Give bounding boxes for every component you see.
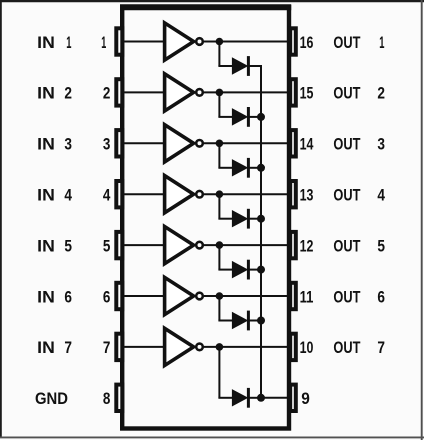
wire diode D5 anode (218, 269, 233, 271)
svg-text:IN: IN (37, 187, 55, 205)
svg-text:IN: IN (37, 237, 55, 255)
wire input pin 7 to inverter 7 (124, 346, 166, 348)
svg-text:12: 12 (300, 237, 314, 255)
svg-text:15: 15 (300, 85, 314, 103)
diode D1 (232, 58, 247, 74)
inverter U4 output bubble (196, 191, 203, 198)
wire input pin 1 to inverter 1 (124, 41, 166, 43)
pin 2 tab (116, 79, 122, 105)
junction node diode D2 on rail (257, 113, 265, 121)
svg-text:OUT: OUT (333, 85, 360, 103)
inverter U2 output bubble (196, 89, 203, 96)
svg-text:5: 5 (64, 237, 72, 255)
wire input pin 5 to inverter 5 (124, 244, 166, 246)
svg-text:8: 8 (103, 390, 111, 408)
diode D5 (232, 262, 247, 278)
junction node diode D5 on rail (257, 266, 265, 274)
svg-text:OUT: OUT (333, 136, 360, 154)
diode D4 (232, 211, 247, 227)
diode D7 cathode bar (247, 388, 250, 408)
svg-text:IN: IN (37, 136, 55, 154)
junction node diode D7 on rail (257, 394, 265, 402)
wire diode D3 cathode to common rail (248, 167, 262, 169)
inverter U1 (165, 23, 194, 60)
wire input pin 2 to inverter 2 (124, 91, 166, 93)
border frame left (0, 0, 2, 438)
wire diode D4 anode (218, 218, 233, 220)
svg-text:OUT: OUT (333, 187, 360, 205)
junction node row 5 (216, 241, 224, 249)
pin 12 tab (290, 232, 296, 258)
junction node diode D4 on rail (257, 215, 265, 223)
inverter U5 (165, 227, 194, 264)
pin 4 tab (116, 181, 122, 207)
wire diode D6 anode (218, 320, 233, 322)
pin 10 tab (290, 334, 296, 360)
diode D6 (232, 313, 247, 329)
wire inverter 6 output to pin 11 (204, 295, 288, 297)
pin 13 tab (290, 181, 296, 207)
wire input pin 6 to inverter 6 (124, 295, 166, 297)
junction node diode D6 on rail (257, 317, 265, 325)
IC body outline (16-pin DIP) (122, 7, 289, 429)
junction node row 7 (216, 343, 224, 351)
wire diode D2 anode (218, 116, 233, 118)
wire inverter 2 output to pin 15 (204, 91, 288, 93)
junction node row 4 (216, 190, 224, 198)
inverter U1 output bubble (196, 38, 203, 45)
diode D6 cathode bar (247, 311, 250, 331)
inverter U2 (165, 74, 194, 111)
diode D7 (232, 390, 247, 406)
svg-text:4: 4 (377, 187, 385, 205)
svg-text:2: 2 (377, 85, 385, 103)
svg-text:OUT: OUT (333, 288, 360, 306)
diode D4 cathode bar (247, 209, 250, 229)
pin 16 tab (290, 28, 296, 54)
svg-text:11: 11 (300, 288, 314, 306)
svg-text:OUT: OUT (333, 339, 360, 357)
svg-text:2: 2 (103, 85, 111, 103)
wire diode D7 cathode to common rail (248, 397, 262, 399)
inverter U3 output bubble (196, 140, 203, 147)
inverter U7 (165, 328, 194, 365)
svg-text:6: 6 (103, 288, 111, 306)
wire diode D4 cathode to common rail (248, 218, 262, 220)
diode D1 cathode bar (247, 56, 250, 76)
svg-text:6: 6 (64, 288, 72, 306)
inverter U7 output bubble (196, 344, 203, 351)
diode D2 cathode bar (247, 107, 250, 127)
pin 5 tab (116, 232, 122, 258)
svg-text:16: 16 (300, 34, 314, 52)
svg-text:IN: IN (37, 288, 55, 306)
wire junction 2 down to diode D2 (218, 92, 220, 117)
wire diode D5 cathode to common rail (248, 269, 262, 271)
inverter U4 (165, 176, 194, 213)
svg-text:2: 2 (64, 85, 72, 103)
pin 11 tab (290, 283, 296, 309)
svg-text:3: 3 (103, 136, 111, 154)
pin 1 tab (116, 28, 122, 54)
wire inverter 5 output to pin 12 (204, 244, 288, 246)
pin 15 tab (290, 79, 296, 105)
svg-text:5: 5 (377, 237, 385, 255)
pin 9 tab (290, 385, 296, 411)
svg-text:9: 9 (301, 390, 310, 408)
svg-text:3: 3 (377, 136, 385, 154)
svg-text:4: 4 (64, 187, 72, 205)
wire diode D6 cathode to common rail (248, 320, 262, 322)
svg-text:4: 4 (103, 187, 111, 205)
wire diode D1 cathode to common rail (248, 65, 262, 67)
diode D5 cathode bar (247, 260, 250, 280)
border frame bottom (0, 436, 424, 438)
wire diode D2 cathode to common rail (248, 116, 262, 118)
svg-text:OUT: OUT (333, 34, 360, 52)
wire junction 1 down to diode D1 (218, 42, 220, 67)
svg-text:IN: IN (37, 34, 55, 52)
wire input pin 3 to inverter 3 (124, 142, 166, 144)
svg-text:1: 1 (379, 34, 384, 52)
pin 14 tab (290, 130, 296, 156)
wire diode D7 anode (218, 397, 233, 399)
wire diode D1 anode (218, 65, 233, 67)
svg-text:7: 7 (377, 339, 385, 357)
svg-text:13: 13 (300, 187, 314, 205)
pin 6 tab (116, 283, 122, 309)
pin 3 tab (116, 130, 122, 156)
svg-text:IN: IN (37, 339, 55, 357)
svg-text:IN: IN (37, 85, 55, 103)
inverter U6 (165, 277, 194, 314)
junction node diode D3 on rail (257, 164, 265, 172)
svg-text:1: 1 (66, 34, 71, 52)
pin 8 tab (116, 385, 122, 411)
svg-text:GND: GND (35, 390, 68, 408)
wire rail to pin 9 (261, 397, 288, 399)
junction node row 3 (216, 140, 224, 148)
wire junction 4 down to diode D4 (218, 194, 220, 219)
svg-text:14: 14 (300, 136, 314, 154)
wire common cathode rail to pin 9 (260, 66, 262, 398)
wire junction 5 down to diode D5 (218, 245, 220, 270)
wire inverter 7 output to pin 10 (204, 346, 288, 348)
diode D2 (232, 109, 247, 125)
wire input pin 4 to inverter 4 (124, 193, 166, 195)
svg-text:5: 5 (103, 237, 111, 255)
wire inverter 1 output to pin 16 (204, 41, 288, 43)
junction node row 6 (216, 292, 224, 300)
inverter U6 output bubble (196, 293, 203, 300)
wire diode D3 anode (218, 167, 233, 169)
svg-text:7: 7 (64, 339, 72, 357)
svg-text:OUT: OUT (333, 237, 360, 255)
border frame right (421, 0, 423, 440)
pin 7 tab (116, 334, 122, 360)
svg-text:6: 6 (377, 288, 385, 306)
diode D3 cathode bar (247, 158, 250, 178)
inverter U5 output bubble (196, 242, 203, 249)
wire junction 3 down to diode D3 (218, 143, 220, 168)
wire inverter 4 output to pin 13 (204, 193, 288, 195)
wire junction 6 down to diode D6 (218, 296, 220, 321)
IC body top edge (120, 4, 291, 10)
junction node row 1 (216, 38, 224, 46)
wire inverter 3 output to pin 14 (204, 142, 288, 144)
svg-text:7: 7 (103, 339, 111, 357)
wire junction 7 down to diode D7 (218, 347, 220, 398)
svg-text:1: 1 (101, 34, 106, 52)
junction node row 2 (216, 89, 224, 97)
diode D3 (232, 160, 247, 176)
svg-text:10: 10 (300, 339, 314, 357)
border frame top (0, 0, 424, 2)
svg-text:3: 3 (64, 136, 72, 154)
inverter U3 (165, 125, 194, 162)
